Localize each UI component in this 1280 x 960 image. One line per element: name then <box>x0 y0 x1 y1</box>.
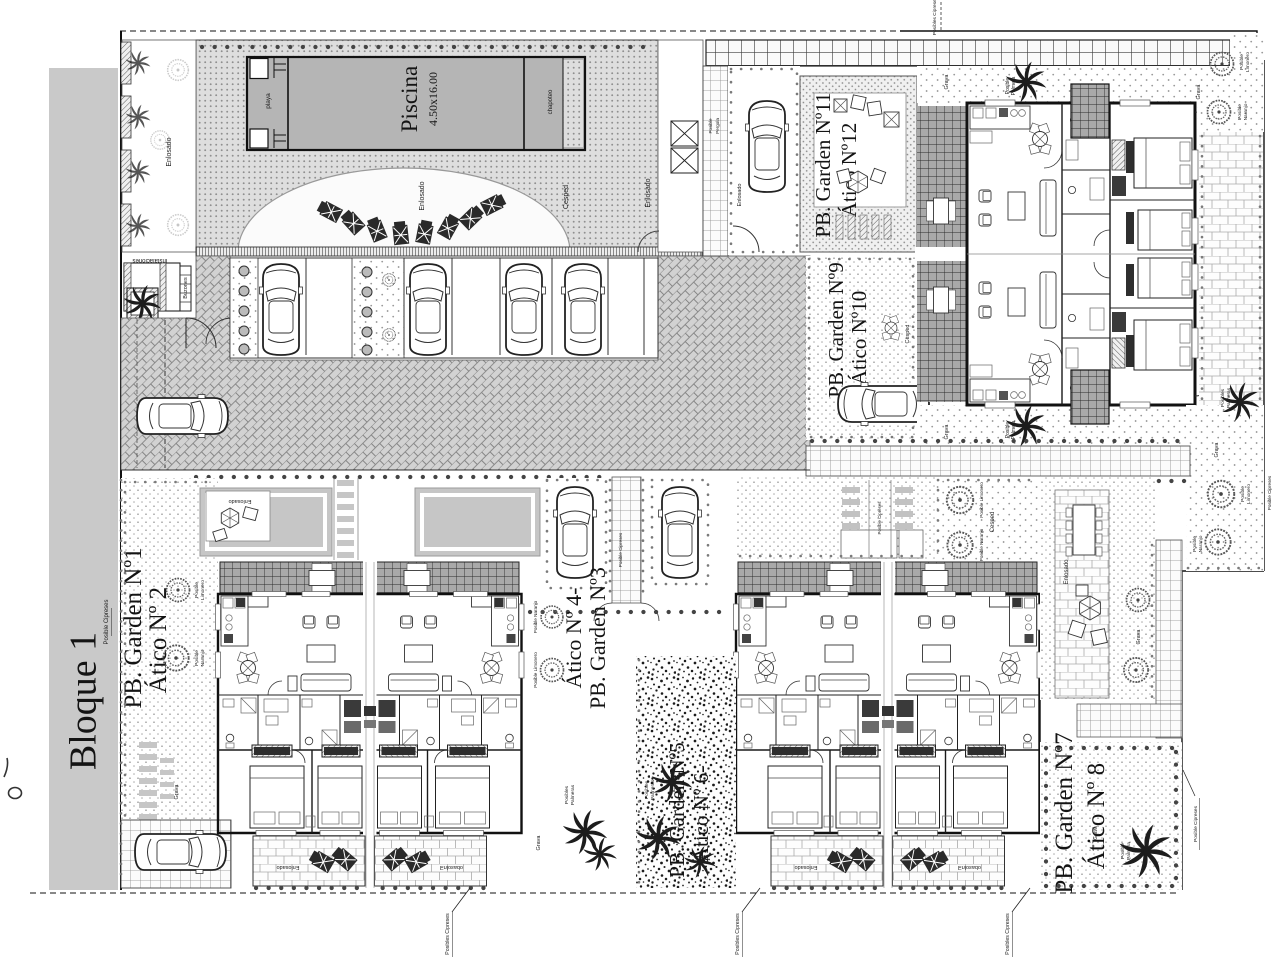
svg-text:Palmera: Palmera <box>1126 842 1132 860</box>
svg-text:Posible Cipreses: Posible Cipreses <box>104 599 110 644</box>
entry gate arcs <box>186 318 216 348</box>
kitchen <box>970 106 1030 129</box>
svg-text:Buzones: Buzones <box>183 277 189 299</box>
carport pergola bars <box>836 215 843 239</box>
small o glyph bottom left <box>9 788 22 799</box>
deck top dot row <box>202 45 654 49</box>
right boundary upper <box>1263 60 1265 571</box>
unit 3 mirrored <box>375 592 525 889</box>
small palms along left wall <box>126 51 151 239</box>
svg-text:Posible: Posible <box>1120 843 1126 859</box>
dots row under pads <box>530 610 730 614</box>
svg-text:Ático Nº 8: Ático Nº 8 <box>1082 763 1110 869</box>
small garden table 9/10 <box>882 315 900 340</box>
axis line <box>967 253 1195 255</box>
svg-text:Enlosado: Enlosado <box>1064 559 1070 585</box>
svg-text:Grava: Grava <box>174 784 180 800</box>
right enlosado patio <box>1199 132 1263 405</box>
svg-text:Cesped: Cesped <box>990 512 996 533</box>
svg-text:Posible: Posible <box>1237 104 1243 120</box>
svg-text:Limonero: Limonero <box>200 580 206 600</box>
svg-text:Naranjo: Naranjo <box>1198 535 1204 552</box>
gate dashed lines <box>164 320 166 468</box>
svg-text:Palmeras: Palmeras <box>650 779 656 800</box>
svg-text:playa: playa <box>265 93 272 109</box>
svg-text:Palmera: Palmera <box>1011 420 1017 439</box>
gravel band above building <box>917 66 1197 103</box>
long table 8 chairs <box>1066 505 1102 556</box>
svg-text:Piscina: Piscina <box>397 66 422 132</box>
svg-text:Naranjo: Naranjo <box>200 649 206 666</box>
sofa <box>1040 180 1056 236</box>
svg-text:Cesped: Cesped <box>563 185 570 209</box>
cesped lawn rects <box>200 488 332 556</box>
entrance arcs right <box>1195 112 1217 134</box>
left boundary wall <box>120 31 122 890</box>
svg-text:Grava: Grava <box>1196 84 1202 100</box>
garden unit 11/12 <box>728 66 800 255</box>
central tile path <box>612 477 641 603</box>
central axis path <box>366 562 374 888</box>
L walkway tiles <box>1156 540 1182 738</box>
stepping stone path <box>139 742 174 820</box>
bath fixtures <box>1070 116 1077 123</box>
svg-text:Pergola: Pergola <box>715 118 720 134</box>
windows top wall <box>985 100 1015 106</box>
svg-text:Posible: Posible <box>1192 536 1198 552</box>
svg-text:4.50x16.00: 4.50x16.00 <box>426 72 440 126</box>
svg-text:Cesped: Cesped <box>905 325 911 344</box>
top boundary right solid <box>900 31 1257 62</box>
enlosado path with long table <box>1055 490 1109 698</box>
car unit 11/12 <box>746 101 789 192</box>
armchairs <box>979 190 991 202</box>
svg-text:Posible: Posible <box>194 582 200 598</box>
deck boundary <box>196 40 658 252</box>
svg-text:Ático Nº 4-: Ático Nº 4- <box>561 588 586 689</box>
chapoteo section <box>523 57 525 150</box>
round bushes right of path <box>1127 589 1150 612</box>
svg-text:Limonero: Limonero <box>1245 52 1251 72</box>
garden unit 9/10 <box>806 256 917 440</box>
swimming pool <box>247 57 585 150</box>
left guide dots on boundary <box>120 480 123 884</box>
svg-text:Instalaciones: Instalaciones <box>132 257 167 263</box>
lounger arc lawn <box>238 168 570 252</box>
beds <box>1134 138 1192 188</box>
svg-text:PB. Garden Nº7: PB. Garden Nº7 <box>1051 732 1078 893</box>
svg-text:PB. Garden Nº9: PB. Garden Nº9 <box>824 262 848 397</box>
svg-text:Grava: Grava <box>1214 442 1220 458</box>
svg-text:Posible Limonero: Posible Limonero <box>533 652 538 688</box>
top dashed boundary <box>120 30 900 32</box>
svg-text:Palmera: Palmera <box>1011 76 1017 95</box>
parked cars <box>260 264 303 355</box>
svg-text:Palmeras: Palmeras <box>1226 387 1232 408</box>
svg-text:Posible: Posible <box>1240 486 1246 502</box>
svg-text:Posible Naranjo: Posible Naranjo <box>533 600 538 633</box>
svg-text:Posible: Posible <box>194 650 200 666</box>
door arc pool deck <box>638 231 659 252</box>
car bottom left <box>135 831 226 874</box>
faint plants on strip <box>151 60 189 236</box>
stepping stones between lawns <box>337 480 354 558</box>
garden gate arc <box>733 226 759 252</box>
parking pad unit 3/4 <box>545 478 608 590</box>
car unit 9/10 <box>838 383 929 426</box>
svg-text:Ático Nº10: Ático Nº10 <box>847 291 871 386</box>
svg-text:Enlosado: Enlosado <box>737 184 743 207</box>
pergola strips <box>220 562 519 594</box>
svg-text:Posible: Posible <box>708 118 713 134</box>
tiled parking pad bottom left <box>121 820 231 888</box>
svg-text:Bloque 1: Bloque 1 <box>63 632 105 770</box>
grey street band <box>49 68 118 890</box>
svg-text:Posibles Cipreses: Posibles Cipreses <box>445 913 451 955</box>
planter boxes with X <box>671 121 698 146</box>
svg-text:Grava: Grava <box>944 424 950 440</box>
svg-text:Posibles Cipreses: Posibles Cipreses <box>932 0 938 35</box>
pool area bottom tick band <box>196 247 702 256</box>
speckled garden unit 5/6 <box>636 656 736 888</box>
svg-text:PB. Garden Nº11: PB. Garden Nº11 <box>811 92 835 237</box>
svg-text:Enlosado: Enlosado <box>645 178 652 207</box>
left enlosado strip <box>122 40 196 252</box>
svg-text:Posible: Posible <box>1239 54 1245 70</box>
right boundary step <box>1182 571 1264 890</box>
gravel garden with trees <box>936 477 1040 560</box>
dining table <box>1029 123 1051 154</box>
gate arcs at path end <box>594 603 612 621</box>
pool deck dotted paving <box>196 40 658 252</box>
zebra paths <box>842 487 913 529</box>
wardrobe <box>1112 140 1125 170</box>
parasol group <box>1080 596 1101 620</box>
dark roof patches <box>1071 84 1109 138</box>
svg-text:Ático Nº 6-: Ático Nº 6- <box>689 766 713 862</box>
svg-text:Naranjo: Naranjo <box>1243 103 1249 120</box>
coffee table <box>1008 192 1025 220</box>
planting strip 2 <box>352 258 404 358</box>
trees unit 3/4 garden <box>541 606 563 628</box>
left tile strip <box>703 66 728 256</box>
left wall planters with hatch <box>121 42 131 84</box>
car entering road <box>137 395 228 438</box>
svg-text:Enlosado: Enlosado <box>229 498 252 504</box>
svg-text:Posibles: Posibles <box>1220 388 1226 407</box>
windows right wall <box>1192 150 1198 180</box>
svg-text:Grava: Grava <box>1093 826 1099 840</box>
carport furniture <box>834 99 847 112</box>
svg-text:Enlosado: Enlosado <box>166 137 173 166</box>
door arcs <box>1044 150 1062 168</box>
stall lines <box>306 258 644 355</box>
building 11/12 + 9/10 <box>915 84 1217 424</box>
right mid garden <box>1186 405 1264 571</box>
palm planter entry <box>127 288 158 319</box>
bottom dashed boundary <box>30 892 1180 894</box>
posible cipreses top <box>940 2 942 30</box>
interior top unit <box>970 100 1198 254</box>
svg-text:Grava: Grava <box>536 835 542 851</box>
svg-text:Posible Cipreses: Posible Cipreses <box>618 532 623 567</box>
svg-text:Palmeras: Palmeras <box>570 784 576 805</box>
svg-text:Posible Cipreses: Posible Cipreses <box>1193 805 1199 842</box>
svg-text:PB. Garden Nº3: PB. Garden Nº3 <box>585 567 610 709</box>
svg-text:Grava: Grava <box>1136 629 1142 645</box>
svg-text:Enlosado: Enlosado <box>419 181 426 210</box>
planting strip 1 <box>230 258 258 358</box>
buzones mailboxes <box>180 266 191 311</box>
building outline <box>967 103 1195 405</box>
right top gravel garden <box>1197 66 1264 132</box>
carport unit 11/12 <box>800 76 917 252</box>
svg-text:Posible Cipreses: Posible Cipreses <box>877 501 882 535</box>
svg-text:Posible Limonero: Posible Limonero <box>979 482 984 518</box>
svg-text:Posibles: Posibles <box>644 780 650 799</box>
playa section <box>250 59 268 79</box>
svg-text:Posibles Cipreses: Posibles Cipreses <box>1005 913 1011 955</box>
svg-text:Grava: Grava <box>944 74 950 90</box>
svg-text:Posible Naranjo: Posible Naranjo <box>979 528 984 561</box>
svg-text:Posible Cipreses: Posible Cipreses <box>1267 475 1272 510</box>
svg-text:Posibles Cipreses: Posibles Cipreses <box>735 913 741 955</box>
parking pad unit 5/6 <box>650 478 710 586</box>
gravel band below building <box>917 405 1197 446</box>
garden border line under road <box>121 469 810 471</box>
svg-text:Limonero: Limonero <box>1246 484 1252 504</box>
loungers <box>316 199 343 223</box>
enlosado strip right of deck <box>658 40 703 252</box>
pergola strip <box>917 106 967 402</box>
svg-text:Ático Nº 2: Ático Nº 2 <box>144 587 172 693</box>
terrace in lawn <box>206 491 270 541</box>
top grid band <box>706 40 1230 66</box>
svg-text:Posibles: Posibles <box>564 785 570 804</box>
instalaciones room <box>124 263 180 311</box>
unit 1 <box>216 592 366 889</box>
svg-text:chapoteo: chapoteo <box>548 89 554 114</box>
